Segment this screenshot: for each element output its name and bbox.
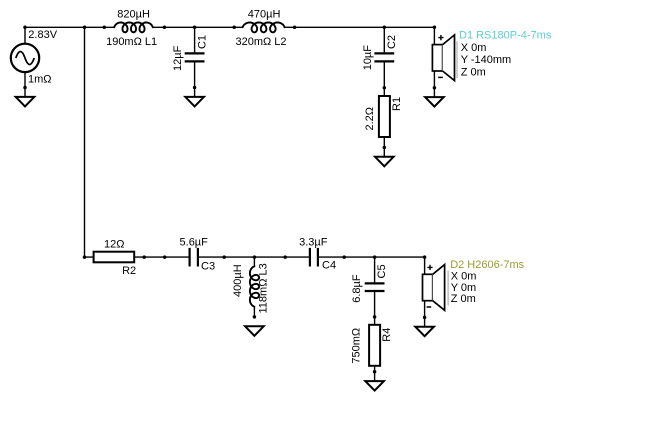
ground of L3 — [245, 326, 264, 336]
node: wire junction after C3 — [222, 255, 226, 259]
inductor L3 400uH shunt — [253, 257, 255, 317]
node: R2 right terminal — [142, 255, 146, 259]
node: branch junction on top net — [83, 26, 87, 30]
svg-text:Y -140mm: Y -140mm — [461, 54, 512, 66]
svg-text:2.83V: 2.83V — [28, 29, 57, 41]
node: corner of branch and bottom net — [83, 255, 87, 259]
capacitor C4 3.3uF — [310, 248, 318, 267]
svg-text:400µH: 400µH — [232, 264, 244, 297]
svg-text:Z 0m: Z 0m — [451, 293, 476, 305]
svg-text:470µH: 470µH — [248, 8, 281, 20]
plus terminal mark of D2 — [427, 265, 432, 270]
capacitor C1 12uF shunt — [194, 27, 196, 96]
AC source V1 — [24, 27, 26, 96]
svg-text:12µF: 12µF — [172, 45, 184, 71]
capacitor C2 10uF — [383, 27, 385, 87]
capacitor C5 6.8uF shunt — [374, 257, 376, 317]
svg-text:X 0m: X 0m — [461, 42, 487, 54]
ground of D1 — [425, 97, 444, 107]
svg-text:R2: R2 — [122, 265, 136, 277]
svg-text:10µF: 10µF — [362, 45, 374, 71]
svg-text:C4: C4 — [322, 259, 336, 271]
node: C5 top terminal — [373, 255, 377, 259]
svg-text:D2 H2606-7ms: D2 H2606-7ms — [450, 259, 524, 271]
node: wire junction before C3 — [163, 255, 167, 259]
driver D1 speaker symbol — [433, 27, 435, 96]
svg-text:5.6µF: 5.6µF — [180, 236, 209, 248]
svg-text:118mΩ L3: 118mΩ L3 — [258, 263, 270, 313]
resistor R1 2.2ohm — [383, 88, 385, 157]
svg-text:C2: C2 — [386, 35, 398, 49]
svg-text:R1: R1 — [391, 97, 403, 111]
svg-text:X 0m: X 0m — [451, 271, 477, 283]
svg-text:Z 0m: Z 0m — [461, 66, 486, 78]
svg-text:12Ω: 12Ω — [104, 239, 124, 251]
minus terminal mark of D2 — [427, 306, 432, 308]
svg-text:C5: C5 — [376, 264, 388, 278]
node: C4 right terminal — [342, 255, 346, 259]
node: L2 right terminal — [293, 26, 297, 30]
svg-text:1mΩ: 1mΩ — [28, 74, 52, 86]
svg-text:R4: R4 — [381, 328, 393, 342]
svg-text:C1: C1 — [196, 35, 208, 49]
ground of R1 — [375, 157, 394, 167]
svg-text:6.8µF: 6.8µF — [351, 274, 363, 303]
svg-text:2.2Ω: 2.2Ω — [364, 107, 376, 131]
svg-text:C3: C3 — [201, 260, 215, 272]
wire: vertical branch from top net down to low-pass section — [84, 27, 86, 257]
plus terminal mark of D1 — [438, 35, 443, 40]
resistor R2 12ohm — [94, 252, 135, 263]
inductor L2 470uH — [243, 23, 285, 33]
node: L2 left terminal — [232, 26, 236, 30]
svg-text:820µH: 820µH — [117, 8, 150, 20]
ground of C1 — [185, 97, 204, 107]
inductor L1 820uH — [114, 23, 153, 33]
label block of D1 — [456, 41, 458, 78]
capacitor C3 5.6uF — [190, 248, 198, 267]
svg-text:320mΩ L2: 320mΩ L2 — [235, 36, 286, 48]
driver D2 speaker symbol — [424, 257, 426, 327]
label block of D2 — [447, 271, 449, 306]
ground of R4 — [365, 381, 384, 391]
node: L1 left terminal — [103, 26, 107, 30]
node: C5-R4 junction — [373, 315, 377, 319]
node: L3 top terminal — [253, 255, 257, 259]
minus terminal mark of D1 — [438, 76, 443, 78]
svg-text:D1 RS180P-4-7ms: D1 RS180P-4-7ms — [459, 29, 552, 41]
svg-text:750mΩ: 750mΩ — [351, 328, 363, 364]
ground of D2 — [415, 327, 434, 337]
node: L1 right terminal — [163, 26, 167, 30]
svg-text:Y 0m: Y 0m — [451, 282, 476, 294]
svg-text:3.3µF: 3.3µF — [299, 236, 328, 248]
wire: bottom net from branch corner to driver D2 — [85, 256, 425, 258]
svg-text:190mΩ L1: 190mΩ L1 — [106, 36, 157, 48]
wire: main top net from source to driver D1 — [25, 26, 434, 28]
ground of source V1 — [16, 97, 35, 107]
node: wire junction after L3 — [283, 255, 287, 259]
resistor R4 750mohm — [374, 317, 376, 381]
